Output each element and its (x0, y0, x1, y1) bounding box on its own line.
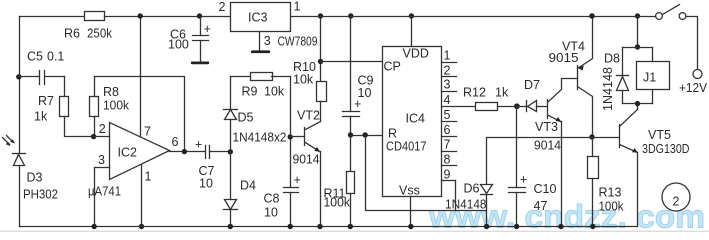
wire: R/pin9 return path (366, 136, 487, 211)
diode D7 (517, 106, 527, 108)
resistor R7 1k (60, 97, 69, 117)
svg-text:R7: R7 (38, 94, 54, 108)
svg-text:10: 10 (264, 206, 278, 220)
svg-text:PH302: PH302 (23, 188, 58, 202)
svg-text:3DG130D: 3DG130D (642, 142, 690, 156)
photodiode D3 PH302 (13, 153, 26, 155)
svg-text:Vss: Vss (399, 184, 420, 198)
svg-text:9015: 9015 (549, 51, 579, 65)
wire: pin 7 supply from top rail (140, 17, 142, 137)
svg-text:250k: 250k (87, 27, 113, 41)
svg-text:VDD: VDD (403, 47, 429, 61)
wire: VDD to top rail (411, 17, 413, 47)
node: rail junction VT3 emitter (558, 224, 563, 229)
svg-text:VT5: VT5 (648, 128, 671, 142)
wire: op-amp pin 2 input (94, 136, 110, 138)
svg-text:+: + (195, 138, 202, 152)
node: rail junction D6 cathode (484, 224, 489, 229)
svg-text:R: R (388, 127, 397, 141)
capacitor C7 10 (205, 146, 207, 159)
svg-text:2: 2 (444, 63, 451, 77)
svg-text:2: 2 (99, 122, 106, 136)
ground (C6) (191, 62, 210, 65)
diode D4 (225, 200, 237, 210)
wire: pin 4 to R12 (442, 106, 476, 108)
wire: op-amp output pin 6 (170, 151, 206, 153)
wire: pin 1 to ground rail (141, 165, 143, 227)
transistor VT5 3DG130D (593, 137, 619, 139)
svg-text:R9: R9 (242, 85, 258, 99)
svg-text:100k: 100k (599, 200, 625, 214)
svg-text:C10: C10 (534, 182, 557, 196)
node: rail junction C10 (514, 224, 519, 229)
svg-text:1k: 1k (34, 110, 48, 124)
node: rail junction op-amp pin3 (92, 224, 97, 229)
ground (IC3 pin 3) (251, 50, 270, 53)
svg-text:+: + (294, 173, 301, 187)
svg-text:CW7809: CW7809 (278, 35, 318, 49)
svg-text:10k: 10k (264, 85, 285, 99)
node: inverting input junction (91, 134, 96, 139)
resistor R6 (85, 12, 105, 21)
capacitor C6 100 (197, 13, 202, 18)
svg-text:10: 10 (358, 86, 372, 100)
svg-text:D6: D6 (464, 182, 480, 196)
svg-text:D3: D3 (27, 171, 43, 185)
svg-text:100: 100 (168, 38, 189, 52)
svg-text:IC2: IC2 (118, 146, 138, 160)
svg-text:7: 7 (444, 138, 451, 152)
svg-text:4: 4 (444, 93, 451, 107)
svg-text:D4: D4 (240, 179, 256, 193)
node: C5 tap junction (16, 74, 21, 79)
svg-text:D8: D8 (604, 52, 620, 66)
resistor R8 100k (94, 77, 96, 97)
svg-text:1N4148: 1N4148 (601, 67, 615, 111)
svg-text:10k: 10k (293, 73, 314, 87)
wire: bottom ground rail (20, 226, 638, 228)
node: rail junction Vss (408, 224, 413, 229)
op-amp IC2 uA741 (110, 123, 170, 180)
diode D8 (622, 48, 624, 76)
terminal +12V (693, 70, 702, 79)
bottom scan edge (0, 231, 709, 232)
node: rail junction R11 (348, 224, 353, 229)
resistor R9 10k (231, 76, 251, 78)
wire: op-amp pin 3 input (95, 168, 110, 227)
resistor R10 10k (320, 17, 322, 82)
svg-text:1: 1 (294, 0, 301, 14)
svg-text:10: 10 (199, 177, 213, 191)
switch S (656, 13, 663, 20)
resistor R12 1k (476, 103, 498, 111)
svg-text:1: 1 (444, 49, 451, 63)
svg-text:3: 3 (444, 78, 451, 92)
capacitor C5 0.1 (20, 76, 40, 78)
svg-text:IC3: IC3 (248, 11, 268, 25)
svg-text:C8: C8 (264, 192, 280, 206)
svg-text:2: 2 (219, 0, 226, 14)
node: CP tap (318, 59, 323, 64)
svg-text:100k: 100k (324, 195, 351, 209)
transistor VT2 9014 (291, 136, 305, 138)
wire: Vss to ground rail (410, 197, 412, 227)
wire: top rail left segment (20, 16, 85, 18)
svg-text:+: + (520, 173, 527, 187)
svg-text:C5: C5 (27, 50, 43, 64)
svg-text:8: 8 (444, 152, 451, 166)
svg-text:R12: R12 (463, 86, 486, 100)
diode D6 (481, 185, 493, 194)
transistor VT4 9015 (577, 66, 579, 90)
wire: R8 feedback to op-amp output (95, 77, 185, 152)
resistor R11 100k (350, 136, 352, 172)
svg-text:D5: D5 (238, 111, 254, 125)
wire: CP line to IC4 (321, 61, 383, 63)
transistor VT3 9014 (547, 100, 549, 119)
svg-text:9014: 9014 (534, 139, 561, 153)
svg-text:6: 6 (444, 123, 451, 137)
svg-text:R8: R8 (103, 85, 119, 99)
svg-text:9: 9 (444, 168, 451, 182)
IC4 pin stubs 1-9 (442, 62, 457, 64)
svg-text:J1: J1 (643, 71, 656, 85)
svg-text:CP: CP (384, 60, 401, 74)
svg-text:100k: 100k (103, 99, 130, 113)
svg-text:VT3: VT3 (535, 120, 558, 134)
diode D5 (224, 109, 238, 111)
node: R12/D7/C10 junction (514, 103, 520, 109)
svg-text:2: 2 (673, 195, 680, 209)
relay J1 (652, 48, 654, 62)
capacitor C9 10 (350, 17, 352, 112)
node: rail junction D4 cathode (228, 224, 233, 229)
svg-text:+: + (204, 22, 211, 36)
svg-text:VT2: VT2 (297, 109, 320, 123)
svg-text:1k: 1k (495, 86, 509, 100)
svg-text:6: 6 (172, 135, 179, 149)
svg-text:+12V: +12V (679, 81, 708, 95)
svg-text:7: 7 (144, 125, 151, 139)
svg-text:9014: 9014 (293, 153, 320, 167)
svg-text:3: 3 (98, 153, 105, 167)
svg-text:47: 47 (534, 199, 548, 213)
node: VT4 collector / R13 / VT5 base (589, 134, 594, 139)
wire: pin 9 drop (455, 181, 457, 211)
node: C7 to diode branch junction (228, 149, 233, 154)
capacitor C8 10 (284, 187, 299, 189)
svg-text:1: 1 (145, 170, 152, 184)
svg-text:1N4148x2: 1N4148x2 (233, 131, 287, 145)
svg-text:IC4: IC4 (406, 112, 426, 126)
svg-text:CD4017: CD4017 (386, 140, 427, 154)
wire: relay branch from top rail (637, 17, 639, 48)
wire: left vertical photodiode branch (19, 17, 21, 154)
svg-text:5: 5 (444, 108, 451, 122)
svg-text:0.1: 0.1 (47, 50, 64, 64)
svg-text:D7: D7 (524, 78, 540, 92)
wire: top rail right segment (290, 16, 656, 18)
svg-text:R6: R6 (64, 27, 80, 41)
node: rail junction R13 (590, 224, 595, 229)
voltage regulator IC3 CW7809 (231, 3, 291, 32)
svg-text:1N4148: 1N4148 (445, 198, 487, 212)
wire: R9 right drop to VT2 base node (290, 77, 292, 188)
node: VT4 emitter rail junction (589, 13, 594, 18)
resistor R13 100k (592, 138, 594, 157)
wire: rail R6 to IC3 pin2 (105, 16, 231, 18)
capacitor C10 47 (516, 107, 518, 188)
node: rail junction VT2 emitter (317, 224, 322, 229)
IC4 CD4017 box (383, 47, 442, 197)
wire: switch to +12V terminal (687, 17, 698, 70)
svg-text:μA741: μA741 (88, 185, 121, 199)
wire: D5/D4 vertical branch (230, 77, 232, 110)
circled figure number 2 (662, 183, 690, 211)
wire: R line to IC4 (351, 135, 383, 137)
node: rail junction C8 (288, 224, 293, 229)
wire: node to D6 anode (487, 138, 593, 184)
svg-text:R13: R13 (599, 186, 622, 200)
svg-text:3: 3 (264, 34, 271, 48)
